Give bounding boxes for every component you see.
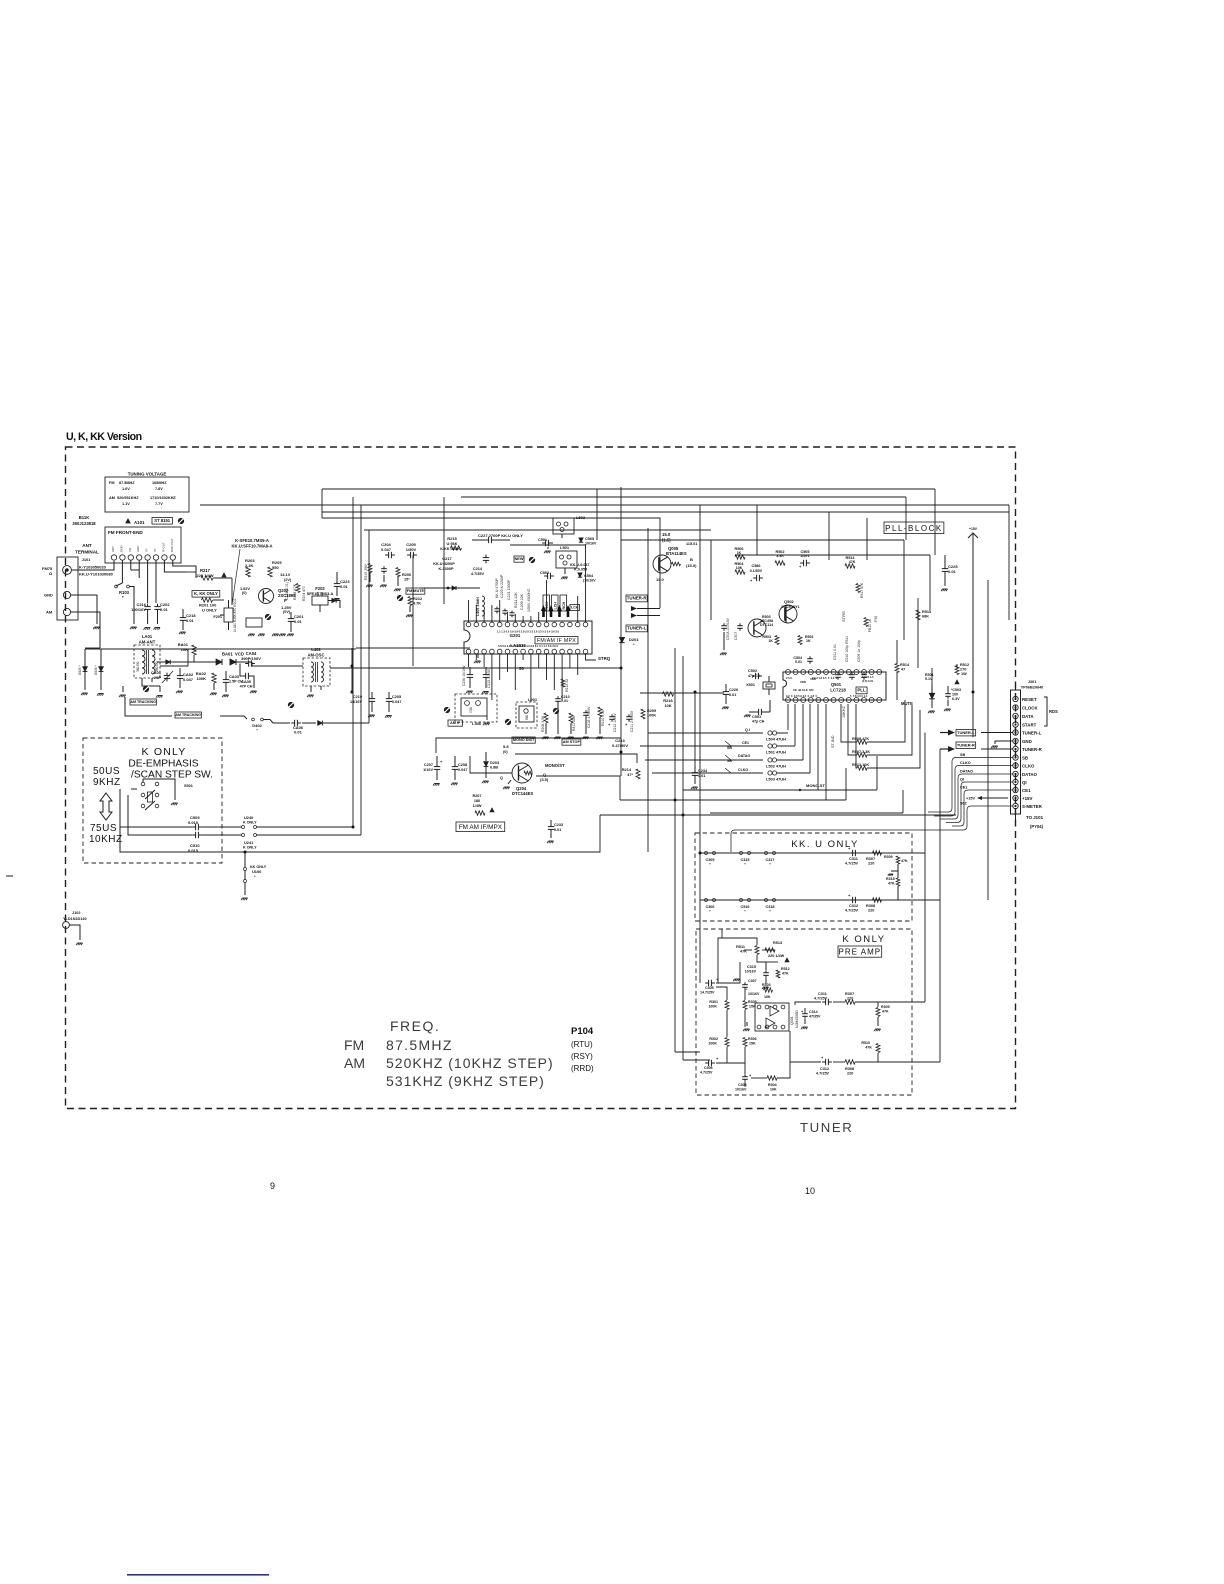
- opamp Q301 box: [755, 1003, 789, 1031]
- res R501b: [798, 636, 802, 645]
- svg-text:1710/1602KHZ: 1710/1602KHZ: [150, 496, 176, 500]
- res R304: [767, 1076, 777, 1080]
- cap C207: [436, 764, 438, 767]
- svg-text:C501: C501: [752, 715, 761, 719]
- svg-text:FM: FM: [873, 616, 878, 622]
- svg-text:531KHZ (9KHZ STEP): 531KHZ (9KHZ STEP): [386, 1073, 545, 1089]
- diode C505: [579, 538, 583, 542]
- svg-text:15*: 15*: [404, 578, 410, 582]
- svg-text:MUTE: MUTE: [901, 701, 913, 706]
- res R503b: [775, 636, 779, 645]
- warn triangle R217: [221, 572, 226, 577]
- svg-text:R513: R513: [773, 941, 782, 945]
- wire: [515, 754, 637, 763]
- wire: [659, 530, 661, 608]
- res R502: [775, 561, 785, 565]
- wire: [351, 648, 353, 692]
- svg-text:R309: R309: [884, 855, 893, 859]
- cap C510d: [192, 834, 196, 836]
- svg-text:R212: R212: [413, 597, 422, 601]
- LCH tag 1: [552, 595, 559, 611]
- cap C233: [550, 824, 552, 827]
- svg-text:C516: C516: [740, 905, 749, 909]
- svg-text:C212 1/50V: C212 1/50V: [613, 713, 617, 732]
- svg-text:C311: C311: [849, 857, 858, 861]
- wire: [483, 610, 485, 622]
- svg-text:VT: VT: [153, 548, 157, 552]
- svg-text:10K: 10K: [770, 1088, 777, 1092]
- svg-text:AM: AM: [46, 610, 53, 615]
- svg-text:1/16V: 1/16V: [423, 768, 433, 772]
- svg-text:0.01: 0.01: [294, 730, 303, 735]
- conn U100: [244, 868, 247, 871]
- svg-text:AM TRACKING: AM TRACKING: [130, 700, 156, 704]
- wire: [833, 1061, 845, 1063]
- cap C225: [944, 566, 946, 569]
- svg-text:0.047: 0.047: [183, 677, 194, 682]
- svg-text:CLOCK: CLOCK: [1022, 705, 1038, 710]
- svg-text:DATAO: DATAO: [738, 754, 750, 758]
- cap C315b: [765, 970, 767, 973]
- wire la01 bottom: [142, 678, 160, 686]
- svg-text:C305: C305: [705, 986, 714, 990]
- svg-text:L502 47UH: L502 47UH: [766, 764, 786, 769]
- warn preamp: [784, 957, 789, 962]
- conn U241: [242, 834, 245, 837]
- svg-text:NJM4558D: NJM4558D: [795, 1010, 799, 1028]
- FM FRONT-END pin circles: [111, 555, 116, 560]
- coil L405: [482, 596, 485, 616]
- boxed AM TRACKING 1: [130, 699, 156, 705]
- wire: [674, 648, 676, 1052]
- svg-text:PLL-BLOCK: PLL-BLOCK: [885, 524, 943, 533]
- boxed TUNER-R mid: [626, 595, 647, 602]
- wire: [956, 664, 958, 668]
- cap C311b: [822, 1001, 826, 1003]
- svg-text:R215: R215: [447, 536, 457, 541]
- svg-text:PLL: PLL: [857, 688, 866, 693]
- wire: [536, 776, 620, 800]
- boxed PLL: [856, 687, 867, 694]
- svg-text:380J30: 380J30: [136, 661, 140, 672]
- svg-text:C227 2700P KK.U ONLY: C227 2700P KK.U ONLY: [478, 533, 523, 538]
- main tuner dashed border: [66, 447, 1016, 1109]
- svg-text:0.047: 0.047: [458, 768, 468, 772]
- svg-text:R219 390*: R219 390*: [364, 563, 368, 580]
- svg-text:RCH: RCH: [562, 601, 566, 609]
- svg-text:SFE10.7MS3-A: SFE10.7MS3-A: [307, 592, 334, 596]
- tuning voltage table box: [105, 477, 189, 512]
- wire: [777, 1062, 790, 1078]
- resistor R203 2.2K v: [246, 567, 250, 577]
- svg-text:47K: 47K: [888, 882, 895, 886]
- gnd la01: [122, 686, 124, 692]
- wire: [939, 749, 941, 1062]
- L402 primary: [311, 662, 314, 682]
- junction node: [699, 852, 702, 855]
- svg-text:L406: L406: [472, 721, 482, 726]
- svg-text:K ONLY: K ONLY: [842, 934, 885, 945]
- diode D501: [929, 693, 935, 699]
- conn U240: [242, 826, 245, 829]
- svg-text:C418 4.7/25V: C418 4.7/25V: [587, 706, 591, 728]
- junction node: [972, 691, 975, 694]
- svg-text:Q502: Q502: [784, 599, 795, 604]
- svg-text:GND: GND: [44, 593, 53, 598]
- svg-text:C314: C314: [809, 1010, 818, 1014]
- coil L501b: [768, 744, 772, 748]
- filter F202: [312, 596, 328, 605]
- svg-text:5.6 6.9 3.4 5.4 5.6 0 4.9 4.0: 5.6 6.9 3.4 5.4 5.6 0 4.9 4.0 6.8 6.1 3.…: [498, 644, 558, 648]
- svg-text:C311: C311: [818, 992, 827, 996]
- svg-text:STRQ: STRQ: [598, 656, 611, 661]
- svg-text:U:180 K,KK:470 R202: U:180 K,KK:470 R202: [233, 599, 237, 632]
- svg-text:47K: 47K: [882, 1010, 889, 1014]
- wire: [238, 815, 600, 852]
- res R210 v: [598, 707, 602, 717]
- svg-text:1.1 1.3 0.5 5.9 3.9 0 2.9 2.0: 1.1 1.3 0.5 5.9 3.9 0 2.9 2.0 3.5 2.0 3.…: [497, 630, 560, 634]
- svg-text:TUNING VOLTAGE: TUNING VOLTAGE: [128, 472, 167, 477]
- svg-text:50: 50: [519, 666, 524, 671]
- cap CA04: [245, 663, 249, 665]
- svg-text:270: 270: [960, 668, 966, 672]
- cap C505b: [800, 562, 804, 564]
- cap C312: [849, 899, 853, 901]
- svg-text:220: 220: [847, 1072, 853, 1076]
- svg-text:L501 47UH: L501 47UH: [766, 750, 786, 755]
- svg-text:10K: 10K: [736, 566, 743, 570]
- wire: [231, 578, 233, 605]
- svg-text:ST 8151: ST 8151: [154, 518, 171, 523]
- svg-text:4.7/25V: 4.7/25V: [845, 909, 859, 913]
- svg-text:0.01: 0.01: [729, 693, 736, 697]
- svg-text:A101: A101: [134, 520, 145, 525]
- svg-text:47: 47: [901, 668, 905, 672]
- gnd preamp top: [734, 978, 739, 980]
- svg-text:K-3300P: K-3300P: [439, 567, 454, 571]
- svg-text:1K: 1K: [806, 639, 811, 643]
- svg-text:LA1836: LA1836: [510, 643, 526, 648]
- svg-text:S02: S02: [960, 802, 967, 806]
- svg-text:75US: 75US: [90, 823, 117, 834]
- wire deemph bottom: [120, 806, 245, 858]
- wire: [716, 1062, 745, 1064]
- resistor R219: [368, 564, 372, 573]
- wire: [577, 596, 579, 622]
- connector J301 body: [1011, 690, 1021, 814]
- wire: [802, 704, 804, 760]
- wire AM out: [71, 612, 100, 648]
- svg-text:1.6V: 1.6V: [122, 487, 130, 491]
- wire: [744, 989, 746, 1000]
- diode D405: [83, 667, 88, 672]
- wire FM75 to front-end: [71, 561, 114, 570]
- svg-text:R512: R512: [960, 663, 969, 667]
- FM75 pin: [63, 566, 72, 575]
- arrow TUNER-R conn: [948, 746, 955, 752]
- gnd pll left: [723, 632, 725, 650]
- svg-text:47K: 47K: [782, 972, 789, 976]
- boxed AM STOP: [562, 739, 581, 745]
- connector J102: [63, 922, 70, 929]
- wire: [809, 704, 811, 773]
- screw am2: [288, 702, 294, 708]
- de-emphasis dashed box: [83, 738, 222, 863]
- connector J101 body: [57, 557, 78, 620]
- gnd R309b: [877, 1017, 879, 1026]
- svg-text:G201: G201: [510, 633, 521, 638]
- cap C-370: [383, 566, 385, 569]
- wire: [640, 692, 724, 694]
- svg-text:PRE AMP: PRE AMP: [839, 948, 882, 957]
- svg-text:0.01: 0.01: [160, 607, 169, 612]
- svg-text:C207: C207: [424, 763, 433, 767]
- res R211 v: [569, 713, 573, 723]
- svg-text:6-3V: 6-3V: [952, 697, 960, 701]
- IC Q501 LC7218 body: [783, 672, 886, 700]
- Q005 res: [672, 562, 681, 566]
- svg-text:R308: R308: [866, 904, 875, 908]
- wire: [716, 987, 727, 1000]
- LA01 primary: [142, 650, 145, 674]
- svg-text:NEW: NEW: [515, 557, 524, 561]
- svg-text:K ONLY: K ONLY: [243, 846, 257, 850]
- cap C212: [611, 714, 613, 717]
- wire: [694, 692, 696, 766]
- wire: [867, 710, 920, 768]
- cap C226b: [725, 689, 727, 692]
- can L501: [556, 551, 577, 568]
- svg-text:1K: 1K: [737, 551, 742, 555]
- svg-text:47K: 47K: [865, 1046, 872, 1050]
- svg-text:220 1/4W: 220 1/4W: [768, 954, 785, 958]
- svg-text:115.01: 115.01: [686, 542, 697, 546]
- boxed TUNER-L mid: [626, 625, 647, 632]
- svg-text:K ONLY: K ONLY: [142, 746, 187, 758]
- svg-text:10: 10: [805, 1186, 815, 1196]
- res R307: [873, 851, 882, 855]
- svg-text:R306: R306: [748, 1037, 757, 1041]
- svg-text:10KHZ: 10KHZ: [89, 834, 123, 845]
- svg-text:1/50V: 1/50V: [406, 547, 417, 552]
- wire: [368, 530, 370, 723]
- svg-text:DATAO: DATAO: [1022, 772, 1038, 777]
- svg-text:550: 550: [272, 565, 279, 570]
- svg-text:CE1: CE1: [960, 786, 967, 790]
- res R511 v: [755, 946, 759, 955]
- wire pin8 right: [173, 560, 196, 578]
- svg-text:20P: 20P: [154, 675, 161, 680]
- wire: [213, 599, 224, 601]
- wire: [931, 668, 933, 684]
- grounds under cluster: [543, 736, 548, 738]
- svg-text:C220 K:2200P: C220 K:2200P: [500, 574, 504, 598]
- wire: [322, 518, 660, 530]
- svg-text:RESET: RESET: [1022, 697, 1037, 702]
- svg-text:0.01: 0.01: [795, 660, 802, 664]
- wire: [586, 654, 597, 660]
- IC G201 top pins: [466, 622, 471, 627]
- svg-text:R307: R307: [866, 857, 875, 861]
- svg-text:LCH: LCH: [553, 602, 557, 610]
- svg-text:0.01: 0.01: [698, 774, 705, 778]
- svg-text:C234: C234: [698, 769, 708, 773]
- svg-text:KK.U-Y101030080: KK.U-Y101030080: [79, 572, 114, 577]
- boxed FM AM IF/MPX: [456, 822, 505, 832]
- svg-text:0.01: 0.01: [948, 569, 957, 574]
- svg-text:R309: R309: [881, 1005, 890, 1009]
- svg-text:5.8: 5.8: [503, 744, 509, 749]
- svg-text:C501: C501: [538, 538, 547, 542]
- boxed FM MUTE: [406, 588, 425, 594]
- svg-text:TUNER-R: TUNER-R: [627, 596, 648, 601]
- res R514: [845, 564, 855, 568]
- cap C205: [407, 554, 411, 556]
- svg-text:R214: R214: [622, 768, 632, 772]
- svg-text:68K: 68K: [922, 615, 929, 619]
- transformer L402 dashed box: [303, 658, 330, 686]
- screw fm mute: [397, 595, 403, 601]
- wire: [1008, 505, 1010, 620]
- junction node: [352, 826, 355, 829]
- cap MC503: [947, 691, 949, 694]
- wire: [765, 949, 775, 951]
- res R507: [857, 753, 867, 757]
- wire: [522, 616, 524, 622]
- svg-text:ST-IND: ST-IND: [831, 735, 835, 748]
- wire: [856, 704, 857, 768]
- svg-text:QI: QI: [1022, 780, 1027, 785]
- res R512: [955, 666, 959, 675]
- gnd Q204: [508, 780, 511, 784]
- wire: [757, 955, 766, 962]
- opamp tri 2: [766, 1018, 775, 1028]
- svg-text:C586: C586: [751, 564, 760, 568]
- svg-text:F202: F202: [315, 586, 325, 591]
- res R318 v: [896, 878, 900, 886]
- wire: [553, 654, 555, 690]
- crystal X501: [763, 682, 775, 689]
- vert res FB10: [864, 618, 868, 627]
- cap C214: [485, 555, 487, 558]
- svg-text:Q301: Q301: [790, 1016, 794, 1025]
- wire: [322, 488, 935, 490]
- wire am mid: [157, 661, 176, 663]
- svg-text:C305: C305: [705, 858, 714, 862]
- svg-text:S501: S501: [184, 784, 193, 788]
- wire: [491, 605, 493, 622]
- svg-text:FM AM IF/MPX: FM AM IF/MPX: [459, 824, 503, 831]
- wire: [718, 938, 757, 983]
- wire: [795, 1002, 821, 1005]
- svg-text:6.8B: 6.8B: [490, 766, 498, 770]
- coil L502b: [768, 758, 772, 762]
- svg-text:C502: C502: [540, 571, 549, 575]
- svg-text:(RTU): (RTU): [571, 1040, 593, 1049]
- svg-text:C505: C505: [585, 537, 594, 541]
- svg-text:220: 220: [847, 997, 853, 1001]
- cap CA05: [242, 675, 246, 677]
- wire: [160, 665, 188, 667]
- res R308b: [845, 1060, 855, 1064]
- svg-text:TUNER: TUNER: [800, 1120, 853, 1135]
- resistor R206: [396, 568, 400, 577]
- res R309b v: [876, 1008, 880, 1017]
- wire: [762, 949, 765, 951]
- connector J301 pins: [1013, 696, 1018, 701]
- wire: [934, 489, 936, 555]
- svg-text:L201: L201: [528, 697, 538, 702]
- arrow TUNER-L conn: [948, 730, 955, 736]
- double arrow: [100, 793, 112, 820]
- svg-text:100K: 100K: [708, 1042, 717, 1046]
- svg-text:0.47/50V: 0.47/50V: [612, 743, 628, 748]
- wire: [794, 704, 796, 746]
- svg-text:AM TRACKING: AM TRACKING: [175, 713, 201, 717]
- wire pin5 C216: [147, 560, 149, 603]
- cap C230: [469, 672, 471, 675]
- wire: [867, 700, 905, 742]
- wire: [344, 667, 621, 669]
- junction dot am: [350, 690, 353, 693]
- svg-text:AM IF: AM IF: [450, 721, 461, 725]
- svg-text:VDD: VDD: [800, 680, 806, 684]
- svg-text:R308: R308: [845, 1067, 854, 1071]
- wire: [364, 529, 711, 531]
- svg-text:0.015: 0.015: [188, 820, 199, 825]
- wire: [876, 756, 878, 790]
- svg-text:7.7V: 7.7V: [155, 502, 163, 506]
- wire: [903, 540, 905, 640]
- ceramic F201b: [246, 618, 262, 627]
- wire D405 gnd: [84, 672, 86, 690]
- wire: [699, 505, 701, 853]
- wire: [470, 756, 512, 773]
- svg-text:10K: 10K: [181, 647, 188, 652]
- wire: [468, 654, 470, 667]
- filter F201: [224, 608, 233, 622]
- svg-text:C209 22K: C209 22K: [520, 593, 524, 610]
- svg-text:1/50V 4500HZ: 1/50V 4500HZ: [527, 588, 531, 612]
- screw mark q202: [265, 614, 271, 620]
- svg-text:STRG: STRG: [841, 611, 846, 622]
- svg-text:R511: R511: [736, 945, 745, 949]
- res R508: [857, 740, 867, 744]
- wire: [322, 511, 1009, 513]
- wire: [841, 704, 857, 742]
- svg-text:F201: F201: [213, 615, 222, 619]
- svg-text:R513 10K: R513 10K: [852, 763, 869, 767]
- svg-text:CA03: CA03: [229, 674, 240, 679]
- wire: [468, 600, 470, 622]
- svg-text:U:56K: U:56K: [447, 542, 458, 546]
- svg-text:520/551KHZ: 520/551KHZ: [117, 496, 139, 500]
- NEW tag: [514, 556, 524, 562]
- svg-text:B11K: B11K: [79, 515, 89, 520]
- svg-text:MONO-ST: MONO-ST: [806, 783, 825, 788]
- svg-text:(0V): (0V): [283, 610, 291, 614]
- junction node: [694, 691, 697, 694]
- wire: [538, 654, 540, 668]
- svg-text:(4.5) 0.01: (4.5) 0.01: [862, 679, 874, 683]
- conn stub top: [1015, 682, 1017, 690]
- diode arrow am: [166, 660, 170, 664]
- RCH tag 2: [560, 595, 567, 611]
- svg-text:C306: C306: [705, 905, 714, 909]
- svg-text:L402: L402: [311, 647, 321, 652]
- cap CA03: [225, 677, 227, 680]
- svg-text:U240: U240: [244, 815, 253, 820]
